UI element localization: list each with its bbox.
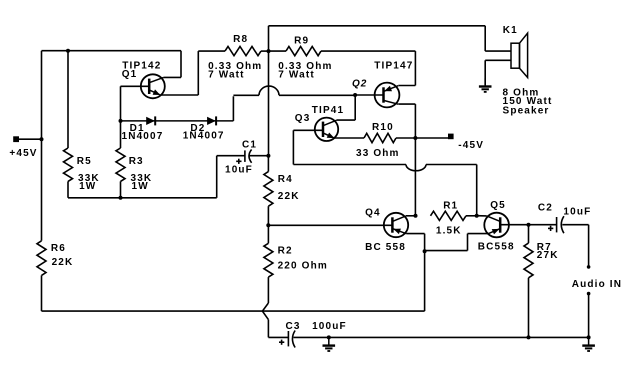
- node ground junction: [327, 335, 331, 339]
- resistor R8: [225, 47, 261, 56]
- svg-text:Q2: Q2: [352, 78, 367, 89]
- wire R5/R3 bottom: [68, 197, 217, 199]
- wire Q2 collector: [384, 100, 399, 104]
- wire diode row: [121, 120, 234, 122]
- terminal +45V square: [13, 136, 19, 142]
- svg-text:R10: R10: [372, 122, 394, 133]
- svg-text:Q3: Q3: [295, 113, 311, 124]
- svg-text:10uF: 10uF: [563, 207, 591, 218]
- capacitor C3: [287, 331, 289, 346]
- transistor Q4 BC558: [384, 213, 408, 237]
- diode D1 1N4007: [146, 117, 155, 125]
- capacitor C2: [556, 217, 558, 232]
- wire speaker ground side: [485, 59, 511, 61]
- svg-text:R6: R6: [51, 243, 66, 254]
- ground speaker: [484, 78, 486, 85]
- svg-text:R3: R3: [129, 156, 144, 167]
- node R10 junction: [413, 136, 417, 140]
- svg-text:K1: K1: [503, 25, 518, 36]
- node R7 bottom junction: [527, 335, 531, 339]
- wire Q3 emitter: [323, 133, 334, 138]
- svg-text:R2: R2: [278, 245, 293, 256]
- svg-text:22K: 22K: [52, 257, 74, 268]
- node output junction: [267, 49, 271, 53]
- wire crossover hump: [259, 86, 279, 95]
- wire Q4 base: [268, 224, 392, 226]
- svg-text:TIP147: TIP147: [374, 60, 413, 71]
- svg-text:7 Watt: 7 Watt: [208, 69, 245, 80]
- node R7 top junction: [527, 223, 531, 227]
- wire Q1 collector: [149, 77, 163, 82]
- svg-text:+45V: +45V: [9, 148, 37, 159]
- svg-text:220 Ohm: 220 Ohm: [278, 260, 328, 271]
- wire Q1 emitter: [149, 90, 159, 95]
- svg-text:R1: R1: [443, 200, 458, 211]
- svg-text:1W: 1W: [132, 181, 149, 192]
- wire Q5 emitter: [488, 229, 500, 234]
- wire Q3 collector: [323, 120, 336, 125]
- wire output top rail: [268, 26, 270, 51]
- svg-text:1.5K: 1.5K: [436, 226, 462, 237]
- resistor R3: [120, 86, 122, 148]
- speaker K1: [511, 43, 520, 68]
- wire Q4 collector: [392, 216, 406, 222]
- wire Q2 base: [355, 94, 383, 96]
- wire crossover chevron: [262, 303, 268, 320]
- wire up to C1: [216, 156, 218, 198]
- resistor R5: [67, 51, 69, 148]
- wire Q1 base: [121, 85, 150, 87]
- wire C2 to Audio IN: [588, 225, 590, 267]
- wire R9 to Q2 emitter: [414, 51, 416, 85]
- resistor R2: [267, 225, 269, 243]
- svg-text:C3: C3: [286, 321, 301, 332]
- wire +45V stub: [16, 138, 42, 140]
- wire output to speaker: [484, 26, 486, 51]
- svg-text:R4: R4: [278, 174, 293, 185]
- svg-text:BC 558: BC 558: [365, 242, 406, 253]
- resistor R7: [528, 225, 530, 243]
- svg-text:R5: R5: [77, 156, 92, 167]
- wire Q5 base: [500, 224, 556, 226]
- transistor Q1 TIP142: [141, 74, 165, 98]
- wire Q3 base loop: [292, 130, 294, 164]
- node rail end junction: [587, 335, 591, 339]
- polarity + C2: [548, 227, 553, 229]
- node R5 top junction: [66, 49, 70, 53]
- svg-text:C2: C2: [538, 203, 553, 214]
- svg-text:BC558: BC558: [478, 241, 515, 252]
- svg-text:-45V: -45V: [458, 140, 484, 151]
- wire R2 bottom to C3: [268, 336, 288, 338]
- wire Q5 collector: [487, 216, 501, 222]
- node R1 left junction: [414, 214, 418, 218]
- svg-text:1N4007: 1N4007: [122, 131, 164, 142]
- ground main: [328, 337, 330, 344]
- svg-text:C1: C1: [242, 140, 257, 151]
- svg-text:Speaker: Speaker: [503, 106, 550, 117]
- polarity + C1: [236, 160, 241, 162]
- svg-text:33 Ohm: 33 Ohm: [356, 148, 400, 159]
- diode D2 1N4007: [207, 117, 216, 125]
- wire crossover dip: [406, 165, 426, 171]
- wire Q3 base: [293, 129, 323, 131]
- svg-text:Audio IN: Audio IN: [572, 279, 622, 290]
- wire D2 to Q2 base: [232, 96, 234, 121]
- resistor R10: [364, 133, 396, 142]
- wire Audio IN ground: [588, 294, 590, 338]
- wire feedback bottom loop: [424, 251, 426, 311]
- svg-text:R9: R9: [294, 36, 309, 47]
- terminal Audio IN top: [587, 265, 591, 269]
- node D1 junction: [119, 119, 123, 123]
- terminal -45V square: [448, 134, 454, 140]
- wire +45V top rail: [42, 50, 182, 52]
- transistor Q5 BC558: [484, 213, 509, 238]
- resistor R1: [431, 211, 467, 220]
- wire left vertical (+45V bus): [41, 51, 43, 241]
- node R4/R2 junction: [266, 223, 270, 227]
- svg-text:22K: 22K: [278, 191, 300, 202]
- node Q2 base junction: [353, 93, 357, 97]
- node C1 junction: [266, 154, 270, 158]
- resistor R9: [269, 50, 287, 52]
- node Q4/Q5 emitter junction: [423, 249, 427, 253]
- svg-text:TIP41: TIP41: [312, 105, 344, 116]
- svg-text:27K: 27K: [537, 250, 559, 261]
- node +45V tap junction: [40, 137, 44, 141]
- svg-text:1N4007: 1N4007: [183, 130, 225, 141]
- resistor R4: [267, 156, 269, 172]
- svg-text:10uF: 10uF: [225, 165, 253, 176]
- svg-text:R8: R8: [233, 34, 248, 45]
- svg-text:100uF: 100uF: [312, 321, 347, 332]
- polarity + C3: [279, 341, 284, 343]
- wire Q4 emitter: [392, 229, 406, 234]
- svg-text:1W: 1W: [79, 181, 96, 192]
- ground Audio IN: [588, 337, 590, 344]
- transistor Q3 TIP41: [315, 118, 338, 141]
- svg-text:Q5: Q5: [490, 200, 506, 211]
- svg-text:Q1: Q1: [122, 69, 138, 80]
- capacitor C1: [244, 150, 246, 162]
- transistor Q2 TIP147: [375, 83, 400, 108]
- svg-text:Q4: Q4: [365, 208, 381, 219]
- svg-text:7 Watt: 7 Watt: [278, 69, 315, 80]
- node R1 right junction: [475, 214, 479, 218]
- node R3 bottom junction: [119, 196, 123, 200]
- terminal Audio IN bottom: [587, 292, 591, 296]
- wire output bus vertical: [268, 51, 270, 156]
- wire -45V bus vertical: [414, 138, 416, 216]
- resistor R6: [37, 241, 46, 276]
